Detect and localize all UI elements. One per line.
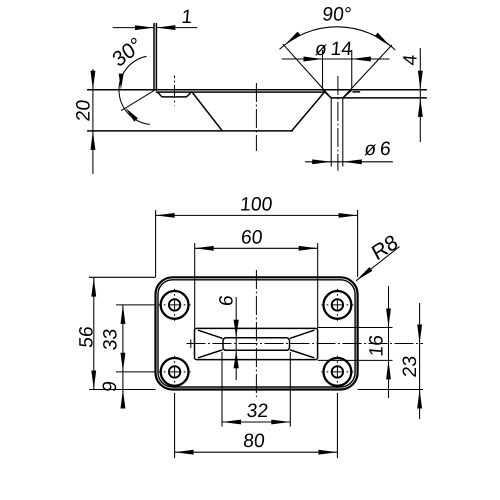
recess chamfer diagonal TL — [199, 330, 223, 338]
recess pocket rectangle — [195, 328, 318, 359]
tab flange 1mm — [154, 24, 156, 91]
view vertical centerline — [255, 270, 257, 397]
dimension 80 — [175, 393, 338, 458]
hole centerline cross bottom-left — [159, 356, 191, 388]
dimension R8 leader — [356, 247, 400, 281]
svg-text:4: 4 — [400, 53, 421, 66]
svg-text:16: 16 — [367, 334, 388, 357]
svg-text:60: 60 — [240, 228, 263, 249]
dimension 23 — [358, 389, 423, 391]
hole bottom-right countersink — [324, 358, 352, 386]
recess chamfer diagonal BL — [199, 350, 223, 358]
centerline middle — [255, 83, 257, 151]
dimension 90 deg — [283, 44, 392, 98]
svg-text:56: 56 — [76, 325, 97, 348]
chamfer edge line — [156, 91, 322, 93]
dimension dia 6 — [305, 161, 393, 163]
recess left slope wall — [192, 92, 222, 131]
outer contour rounded rect — [156, 277, 358, 389]
countersink cone right edge — [343, 90, 352, 98]
hole wall right — [342, 98, 344, 167]
centerline end tick — [190, 340, 192, 348]
centerline right hole — [337, 76, 339, 171]
svg-text:1: 1 — [181, 7, 194, 28]
svg-text:33: 33 — [101, 328, 122, 351]
countersink cone left edge — [323, 90, 332, 98]
hole bottom-left bore — [169, 366, 180, 377]
dimension 60 — [195, 243, 318, 328]
hole centerline cross top-right — [321, 289, 353, 321]
dimension 9 — [122, 372, 124, 408]
countersink cone bottom — [331, 97, 343, 99]
hole centerline cross top-left — [159, 289, 191, 321]
dimension 33 — [116, 305, 156, 372]
svg-text:20: 20 — [74, 99, 95, 122]
countersink depth line — [343, 97, 427, 99]
hole top-right bore — [332, 299, 343, 310]
dimension 100 — [156, 210, 358, 277]
dimension dia 14 — [323, 50, 352, 88]
recess right slope wall — [292, 92, 325, 131]
dimension 56 — [89, 277, 156, 389]
hole wall left — [330, 98, 332, 167]
svg-text:ø 6: ø 6 — [363, 139, 391, 160]
countersink pocket of left hole — [157, 92, 191, 97]
svg-text:80: 80 — [242, 431, 265, 452]
dimension 30 deg — [121, 91, 153, 111]
chamfer edge line right stub — [353, 91, 360, 93]
hole top-right countersink — [324, 291, 352, 319]
top face line — [88, 89, 427, 91]
slot horizontal centerline — [187, 343, 424, 345]
recess chamfer diagonal BR — [291, 350, 314, 358]
recess chamfer diagonal TR — [291, 330, 314, 338]
dimension 20 — [92, 69, 94, 174]
svg-text:9: 9 — [100, 380, 121, 393]
hole bottom-right bore — [332, 366, 343, 377]
centerline left hole — [174, 76, 176, 106]
dimension 4 — [419, 48, 421, 142]
hole bottom-left countersink — [161, 358, 189, 386]
hole top-left bore — [169, 299, 180, 310]
svg-text:32: 32 — [246, 401, 269, 422]
slot — [223, 338, 290, 351]
bottom face line — [88, 130, 293, 132]
hole top-left countersink — [161, 291, 189, 319]
dimension 16 — [318, 328, 393, 361]
dimension 32 — [222, 352, 290, 427]
hole centerline cross bottom-right — [321, 356, 353, 388]
svg-text:6: 6 — [217, 294, 238, 307]
svg-text:90°: 90° — [321, 4, 352, 25]
svg-text:ø 14: ø 14 — [314, 39, 353, 60]
inner contour edge chamfer — [158, 280, 355, 387]
dimension 6 — [235, 297, 237, 380]
dimension 1 — [113, 27, 198, 29]
svg-text:23: 23 — [400, 355, 421, 378]
svg-text:100: 100 — [239, 195, 273, 216]
